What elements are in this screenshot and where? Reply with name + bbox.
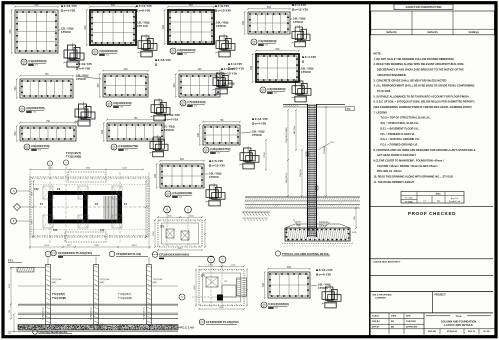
svg-text:300: 300 <box>242 20 245 25</box>
svg-text:FOOTING BEAM DETAIL: FOOTING BEAM DETAIL <box>39 331 68 334</box>
svg-text:C4C(300X600): C4C(300X600) <box>268 302 289 306</box>
caption CF1 <box>199 319 238 325</box>
stirrup label C4Ab <box>205 172 222 180</box>
svg-text:C: C <box>187 208 189 212</box>
svg-text:1:10: 1:10 <box>179 197 182 199</box>
column section C4C <box>197 119 241 146</box>
svg-text:B: B <box>166 208 168 212</box>
stirrup shapes K11 <box>205 183 225 206</box>
rebar label C4Bc <box>302 55 316 62</box>
stirrup label C7c <box>220 82 235 90</box>
svg-text:OF 02L: OF 02L <box>483 331 491 333</box>
svg-text:175C/C: 175C/C <box>61 30 72 34</box>
svg-text:600: 600 <box>35 4 40 7</box>
stirrup label CBMb <box>311 283 331 291</box>
column section C6 <box>97 68 149 98</box>
svg-text:300: 300 <box>154 173 157 178</box>
svg-text:600: 600 <box>162 24 165 29</box>
rebar label C4a_ <box>292 3 308 11</box>
grid bubble B2 <box>164 206 171 213</box>
svg-text:175C/C: 175C/C <box>301 70 312 74</box>
stirrup shapes K7 <box>150 98 170 121</box>
svg-text:1:10: 1:10 <box>35 65 38 67</box>
development length table <box>401 192 464 204</box>
rebar label C7a <box>155 58 171 65</box>
svg-text:4=10-Y20: 4=10-Y20 <box>167 113 180 117</box>
grid bubble 2 <box>47 161 52 166</box>
svg-text:B.F.L = BASEMENT FLOOR LVL.: B.F.L = BASEMENT FLOOR LVL. <box>381 126 420 130</box>
svg-text:750: 750 <box>220 119 225 122</box>
svg-text:C5(300X750): C5(300X750) <box>26 106 44 110</box>
foundation plan CF2 <box>29 166 151 249</box>
svg-text:DRG NO: DRG NO <box>428 331 436 333</box>
detail caption C1 <box>21 59 47 67</box>
typical column footing detail <box>242 104 360 246</box>
svg-text:CF2(REFER PLAN): CF2(REFER PLAN) <box>116 252 141 256</box>
svg-text:S1: S1 <box>253 44 255 46</box>
svg-text:Bundled 2 nd: Bundled 2 nd <box>449 201 460 203</box>
detail caption C6 <box>106 101 132 109</box>
svg-text:S1: S1 <box>167 196 169 198</box>
svg-text:DRN BY: DRN BY <box>372 321 380 323</box>
svg-text:RCC WALLS =25mm: RCC WALLS =25mm <box>377 169 402 173</box>
detail caption C4 <box>251 39 277 47</box>
stirrup label C1b <box>58 27 74 35</box>
svg-text:S1: S1 <box>108 106 110 108</box>
svg-text:4. ALL REINFORCEMENT SHALL BE: 4. ALL REINFORCEMENT SHALL BE HYSD BARS … <box>374 84 475 88</box>
svg-text:800: 800 <box>189 4 194 7</box>
svg-text:4=14-Y25: 4=14-Y25 <box>255 117 268 121</box>
svg-text:300: 300 <box>250 65 253 70</box>
stirrup shapes K6 <box>74 102 95 126</box>
svg-text:CHECKED: CHECKED <box>406 321 416 323</box>
grid bubble flag <box>14 204 31 211</box>
svg-text:11. THE DEVELOPMENT LENGHT: 11. THE DEVELOPMENT LENGHT <box>374 180 415 184</box>
svg-text:1423: 1423 <box>122 168 128 170</box>
stirrup label C10b <box>162 125 175 133</box>
svg-text:CF2(REFER PLAN)(730): CF2(REFER PLAN)(730) <box>58 251 92 255</box>
svg-text:NOTE:: NOTE: <box>374 52 382 56</box>
svg-text:C1(600X600): C1(600X600) <box>28 59 46 63</box>
svg-text:o=4-Y20: o=4-Y20 <box>64 9 76 13</box>
stirrup label C4Cb <box>241 130 265 138</box>
svg-text:300: 300 <box>14 131 17 136</box>
svg-text:D: D <box>222 258 224 262</box>
svg-text:GOOD FOR CONSTRUCTION: GOOD FOR CONSTRUCTION <box>406 5 442 9</box>
svg-text:300: 300 <box>173 83 176 88</box>
footing plan CF1 <box>192 263 248 310</box>
svg-text:800: 800 <box>111 4 116 7</box>
svg-text:C7(300X400): C7(300X400) <box>187 100 205 104</box>
svg-text:40y: 40y <box>437 201 440 203</box>
svg-text:o=6-Y20: o=6-Y20 <box>79 67 91 71</box>
stirrup label C3b <box>214 21 229 29</box>
grid bubble D <box>219 256 226 263</box>
svg-text:1:10: 1:10 <box>275 308 278 310</box>
svg-text:COMPANY: COMPANY <box>375 297 387 300</box>
svg-text:300: 300 <box>197 132 200 137</box>
detail caption C5 <box>19 106 45 114</box>
grid bubble C3 <box>208 256 215 263</box>
svg-text:(SEE ENGINEERING COMPANY PARKA: (SEE ENGINEERING COMPANY PARKAT LIMITED-… <box>374 105 472 109</box>
rebar label C4Ba <box>228 62 244 70</box>
svg-text:SSL: SSL <box>347 109 352 111</box>
svg-text:3567: 3567 <box>86 168 92 170</box>
svg-text:ST(R)01/02: ST(R)01/02 <box>447 331 458 333</box>
svg-text:DISCREPANCY IF ANY SHOULD BE B: DISCREPANCY IF ANY SHOULD BE BROUGHT TO … <box>377 68 464 72</box>
svg-text:o=4+Y20: o=4+Y20 <box>319 273 332 277</box>
svg-text:APPROVED: APPROVED <box>406 326 418 329</box>
column section C10 <box>101 117 165 142</box>
stirrup shapes K5 <box>291 79 311 102</box>
svg-text:4=16-Y20: 4=16-Y20 <box>158 58 171 62</box>
svg-text:CONSULTANT ARCHITECT: CONSULTANT ARCHITECT <box>373 261 402 264</box>
svg-text:S1: S1 <box>23 64 25 66</box>
svg-text:C4b(300X750): C4b(300X750) <box>210 147 230 151</box>
svg-text:1473: 1473 <box>44 245 50 247</box>
svg-text:TY2@100(B): TY2@100(B) <box>118 297 132 300</box>
stirrup shapes K3 <box>215 34 235 57</box>
svg-text:4=4-Y25: 4=4-Y25 <box>231 62 243 66</box>
svg-text:175C/C: 175C/C <box>293 20 304 24</box>
svg-text:Y12@150: Y12@150 <box>153 279 164 281</box>
svg-text:Fe 500b: Fe 500b <box>405 198 413 200</box>
svg-text:1:10: 1:10 <box>125 150 128 152</box>
svg-text:o=4-Y20: o=4-Y20 <box>255 122 267 126</box>
svg-text:800: 800 <box>276 48 281 51</box>
stirrup label C2b <box>136 21 150 29</box>
svg-text:PROOF CHECKED: PROOF CHECKED <box>408 211 456 216</box>
svg-text:9.CLEAR COVER TO MAIN REINF.:: 9.CLEAR COVER TO MAIN REINF.: FOUNDATION… <box>374 159 444 163</box>
svg-text:CF1: CF1 <box>201 276 206 278</box>
svg-text:1,800: 1,800 <box>188 215 194 217</box>
svg-text:10. READ THIS DRAWING ALONG WI: 10. READ THIS DRAWING ALONG WITH DRAWING… <box>374 175 454 179</box>
svg-text:Fe 500b: Fe 500b <box>405 201 413 203</box>
svg-text:LAP 52db: LAP 52db <box>293 126 296 134</box>
svg-text:175C/C: 175C/C <box>164 128 175 132</box>
svg-text:4=12+Y25: 4=12+Y25 <box>319 268 333 272</box>
strap footing elevation <box>8 251 194 335</box>
svg-text:TO IS:1786.: TO IS:1786. <box>377 89 391 93</box>
caption bottom edge <box>33 329 72 334</box>
svg-text:o=12-Y20: o=12-Y20 <box>212 164 226 168</box>
svg-text:600: 600 <box>354 216 356 219</box>
svg-text:Bars 2 b: Bars 2 b <box>451 197 458 200</box>
svg-text:175 C/C: 175 C/C <box>137 24 149 28</box>
svg-text:o=10-Y20: o=10-Y20 <box>218 9 232 13</box>
stirrup label C4Bb <box>299 67 314 75</box>
grid bubble 3 <box>63 160 68 165</box>
svg-text:1,800: 1,800 <box>166 215 172 217</box>
detail caption C10 <box>111 144 138 152</box>
svg-text:400: 400 <box>198 68 203 71</box>
column section C4B <box>250 48 300 83</box>
svg-text:CF3(4050X2950X600): CF3(4050X2950X600) <box>159 253 189 257</box>
grid bubble A <box>11 188 31 194</box>
svg-text:175C/C: 175C/C <box>209 175 220 179</box>
svg-text:CF3: CF3 <box>160 227 165 229</box>
svg-text:minimum: minimum <box>319 222 328 224</box>
svg-text:S1: S1 <box>262 92 264 94</box>
rebar label C10a <box>164 113 180 121</box>
svg-text:175C/C: 175C/C <box>76 77 87 81</box>
svg-text:TY2@(25(T): TY2@(25(T) <box>118 293 132 296</box>
footing plan CF3 <box>153 213 206 251</box>
caption footing detail <box>275 251 330 256</box>
column section C2 <box>84 4 137 46</box>
svg-text:C3(600X600): C3(600X600) <box>177 48 195 52</box>
svg-text:Y12@150: Y12@150 <box>52 279 63 281</box>
svg-text:1:10: 1:10 <box>265 45 268 47</box>
svg-text:S1: S1 <box>113 149 115 151</box>
svg-text:REV 00: REV 00 <box>468 331 476 333</box>
svg-text:C4(300X800): C4(300X800) <box>267 87 285 91</box>
svg-text:LAYOUT AND DETAILS: LAYOUT AND DETAILS <box>444 323 473 327</box>
svg-text:1:10: 1:10 <box>274 93 277 95</box>
stirrup shapes K4 <box>291 25 310 47</box>
column section C3 <box>162 4 215 45</box>
svg-text:PROJECT:: PROJECT: <box>435 294 447 296</box>
svg-text:1:10: 1:10 <box>120 107 123 109</box>
svg-text:4=16-Y25: 4=16-Y25 <box>64 4 77 8</box>
svg-text:Authority: Authority <box>427 31 438 34</box>
svg-text:Y12@150 C/C: Y12@150 C/C <box>144 307 146 320</box>
stirrup shapes K1 <box>63 43 84 67</box>
svg-text:4=4-Y25: 4=4-Y25 <box>305 55 317 59</box>
svg-text:(BF): (BF) <box>100 282 105 284</box>
svg-text:S1: S1 <box>182 105 184 107</box>
svg-text:300: 300 <box>262 282 265 287</box>
svg-text:1:10: 1:10 <box>38 150 41 152</box>
rebar label C7b <box>221 67 237 75</box>
svg-text:(BF): (BF) <box>52 282 57 284</box>
caption CF2 plan <box>51 250 100 258</box>
svg-text:FFL = FINISHED FLOOR LVL.: FFL = FINISHED FLOOR LVL. <box>381 132 416 136</box>
detail caption C4A <box>165 191 192 199</box>
svg-text:8. FOOTINGS AND COLUMNS ARE D: 8. FOOTINGS AND COLUMNS ARE DESIGNED FOR… <box>374 148 476 152</box>
svg-text:SSL = STRUCTURAL SLAB LVL.: SSL = STRUCTURAL SLAB LVL. <box>381 121 420 125</box>
client project band <box>373 292 447 313</box>
svg-text:S1: S1 <box>21 111 23 113</box>
svg-text:1:10: 1:10 <box>194 106 197 108</box>
svg-text:ARCHITECT/ENGINEER.: ARCHITECT/ENGINEER. <box>377 73 407 77</box>
svg-text:Y12@150 C/C: Y12@150 C/C <box>91 307 93 320</box>
stirrup shapes K10 <box>239 146 259 169</box>
column section C5 <box>14 73 74 99</box>
svg-text:5. SUITABLE ALLOWANCE TO BE T: 5. SUITABLE ALLOWANCE TO BE TAKEN INTO A… <box>374 94 470 98</box>
svg-text:Holdings: Holdings <box>469 31 480 34</box>
svg-text:600: 600 <box>84 25 87 30</box>
svg-text:SCALE: SCALE <box>372 315 379 318</box>
svg-text:400: 400 <box>124 68 129 71</box>
svg-text:CF2: CF2 <box>34 188 39 191</box>
svg-text:175C/C: 175C/C <box>252 133 263 137</box>
svg-text:Y8@150C/C: Y8@150C/C <box>286 172 288 183</box>
good for construction header <box>394 4 453 9</box>
svg-text:600: 600 <box>180 158 185 161</box>
svg-text:4=8-Y25: 4=8-Y25 <box>218 4 230 8</box>
svg-text:TY2@125(T): TY2@125(T) <box>66 151 81 155</box>
svg-text:S1: S1 <box>172 53 174 55</box>
svg-text:Y12@150: Y12@150 <box>100 279 111 281</box>
stirrup label C6b <box>76 74 102 82</box>
svg-text:40db: 40db <box>435 193 441 196</box>
detail caption C4B <box>260 87 286 95</box>
note text under C9 <box>66 151 81 159</box>
svg-text:P.C.C 1:4:8: P.C.C 1:4:8 <box>181 326 195 330</box>
svg-text:1:10: 1:10 <box>217 153 220 155</box>
svg-text:o=4-Y16: o=4-Y16 <box>167 118 179 122</box>
svg-text:S1: S1 <box>26 149 28 151</box>
rebar label C3a <box>215 4 231 12</box>
svg-text:150: 150 <box>8 333 11 335</box>
grid bubble C2 <box>185 206 192 213</box>
svg-text:800: 800 <box>267 6 272 9</box>
svg-text:C10: C10 <box>53 229 58 232</box>
svg-text:37500: 37500 <box>264 151 266 157</box>
svg-text:600: 600 <box>287 266 292 269</box>
svg-text:TY2@100(B): TY2@100(B) <box>52 297 66 300</box>
svg-text:TY2@100(B): TY2@100(B) <box>66 155 81 159</box>
svg-text:o=8-Y20: o=8-Y20 <box>139 9 151 13</box>
svg-text:750: 750 <box>46 120 51 123</box>
svg-text:4=4-Y25: 4=4-Y25 <box>224 67 236 71</box>
title block <box>371 313 495 335</box>
svg-text:LIFT HEAD ROOM FLOOR ONLY: LIFT HEAD ROOM FLOOR ONLY <box>377 153 416 157</box>
column section C4 <box>242 6 291 35</box>
row line2 <box>371 275 494 277</box>
rebar label C1a <box>61 4 77 12</box>
svg-text:C6(300X400): C6(300X400) <box>113 101 131 105</box>
stirrup shapes K12 <box>321 285 341 308</box>
stepped footing section mark <box>237 278 247 297</box>
column section C9 <box>14 120 77 142</box>
rebar label C4Aa <box>209 159 225 167</box>
signature table <box>371 11 495 35</box>
detail caption C2 <box>92 49 118 57</box>
rebar label CBMa <box>316 268 333 276</box>
svg-text:TITLE: TITLE <box>455 316 462 318</box>
svg-text:C10: C10 <box>100 229 105 232</box>
svg-text:750: 750 <box>134 117 139 120</box>
svg-text:C: C <box>210 258 212 262</box>
column section C1 <box>9 4 59 54</box>
svg-text:1:10: 1:10 <box>184 54 187 56</box>
svg-text:C4(300X800): C4(300X800) <box>258 39 276 43</box>
svg-text:7. LEGEND: 7. LEGEND <box>374 110 388 114</box>
svg-text:300: 300 <box>14 86 17 91</box>
svg-text:300m: 300m <box>296 222 302 224</box>
svg-text:1477: 1477 <box>67 245 73 247</box>
svg-text:S1: S1 <box>94 54 96 56</box>
svg-text:1473: 1473 <box>48 168 54 170</box>
svg-text:4=12-Y25: 4=12-Y25 <box>79 62 92 66</box>
svg-text:600: 600 <box>9 29 12 34</box>
svg-text:COLUMN: COLUMN <box>324 145 326 154</box>
svg-text:300: 300 <box>97 83 100 88</box>
svg-text:M/S & PROPOSED: M/S & PROPOSED <box>373 294 393 296</box>
column section C7 <box>173 68 221 98</box>
grid bubble B <box>11 218 31 224</box>
svg-text:COLUMN AND FOUNDATION: COLUMN AND FOUNDATION <box>441 319 477 323</box>
svg-text:TYPICAL COLUMN FOOTING DETAIL: TYPICAL COLUMN FOOTING DETAIL <box>282 252 330 256</box>
svg-text:1. DO NOT SCALE THE DRAWING F: 1. DO NOT SCALE THE DRAWING FOLLOW FIGUR… <box>374 57 455 61</box>
svg-text:4=6-Y25: 4=6-Y25 <box>212 159 224 163</box>
svg-text:1:10: 1:10 <box>106 55 109 57</box>
detail caption C9 <box>24 144 50 152</box>
stirrup shapes K2 <box>137 34 157 57</box>
stirrup label C4b_ <box>290 17 306 25</box>
svg-text:Ld: Ld <box>423 201 425 203</box>
svg-text:COLUMN =40mm / BEAMS =30mm SLA: COLUMN =40mm / BEAMS =30mm SLABS=25mm / <box>377 164 439 168</box>
column section CBM <box>262 266 311 299</box>
svg-text:N.G.L = NATURAL GROUND LVL.: N.G.L = NATURAL GROUND LVL. <box>381 137 421 141</box>
stirrup shapes K9 <box>149 135 168 157</box>
svg-text:C4a(300X600): C4a(300X600) <box>172 191 192 195</box>
svg-text:Y12@150 C/C: Y12@150 C/C <box>43 307 45 320</box>
svg-text:T.O.S = TOP OF STRUCTURAL SL: T.O.S = TOP OF STRUCTURAL SLAB LVL. <box>381 116 432 120</box>
svg-text:2. READ THIS DRAWING ALONG WI: 2. READ THIS DRAWING ALONG WITH RELEVANT… <box>374 62 465 66</box>
notes block <box>374 52 476 184</box>
proof checked separator <box>371 205 494 207</box>
svg-text:S1: S1 <box>205 152 207 154</box>
rebar label C2a <box>136 4 152 12</box>
svg-text:C2(600X600): C2(600X600) <box>99 49 117 53</box>
grid bubble 5 <box>179 294 185 300</box>
svg-text:Authority: Authority <box>386 31 397 34</box>
rebar label C6a <box>76 62 92 70</box>
row line4 <box>371 312 494 314</box>
svg-text:CF1(REFER PLAN)(730): CF1(REFER PLAN)(730) <box>206 320 239 324</box>
svg-text:4=12-Y25: 4=12-Y25 <box>139 4 152 8</box>
svg-text:C10(300X750): C10(300X750) <box>118 144 138 148</box>
svg-text:F.F.L: F.F.L <box>8 259 14 263</box>
svg-text:APP BY: APP BY <box>372 326 380 329</box>
panel divider <box>369 3 371 336</box>
svg-text:Y8@150: Y8@150 <box>300 169 302 176</box>
detail caption C3 <box>170 48 196 56</box>
svg-text:(BF): (BF) <box>153 282 158 284</box>
svg-text:6. S.B.C OF SOIL = 30T/SQ.M A: 6. S.B.C OF SOIL = 30T/SQ.M AT 2000L BEL… <box>374 100 475 104</box>
svg-text:o=12-Y20: o=12-Y20 <box>295 8 309 12</box>
svg-text:1:10: 1:10 <box>33 112 36 114</box>
svg-text:3. CONCRETE GRADE SHALL BE M2: 3. CONCRETE GRADE SHALL BE M20 FOR UNLES… <box>374 78 447 82</box>
svg-text:1,800: 1,800 <box>208 265 213 267</box>
svg-text:DRN: DRN <box>406 316 411 318</box>
svg-text:1,500: 1,500 <box>231 265 236 267</box>
stirrup shapes K8 <box>212 71 232 94</box>
detail caption C7 <box>180 100 206 108</box>
detail caption C4C <box>203 147 230 155</box>
svg-text:300: 300 <box>101 129 104 134</box>
rebar label C4Ca <box>252 117 268 125</box>
svg-text:2487: 2487 <box>94 245 100 247</box>
svg-text:Y8@150C/C(MID): Y8@150C/C(MID) <box>286 127 288 143</box>
svg-text:TY2@(25(T): TY2@(25(T) <box>52 293 65 296</box>
svg-text:F.G.L = FORMED GROUND LVL.: F.G.L = FORMED GROUND LVL. <box>381 142 419 146</box>
svg-text:DATE: DATE <box>391 315 397 318</box>
svg-text:750: 750 <box>45 73 50 76</box>
column section C4A <box>154 158 205 189</box>
svg-text:C9(300X750): C9(300X750) <box>31 144 49 148</box>
detail caption CBM <box>261 302 289 310</box>
svg-text:S1: S1 <box>263 307 265 309</box>
svg-text:175C/C: 175C/C <box>216 24 227 28</box>
svg-text:1423: 1423 <box>132 245 138 247</box>
row line3 <box>371 291 494 293</box>
consultant separator <box>371 258 494 260</box>
caption CF3 <box>152 252 214 260</box>
